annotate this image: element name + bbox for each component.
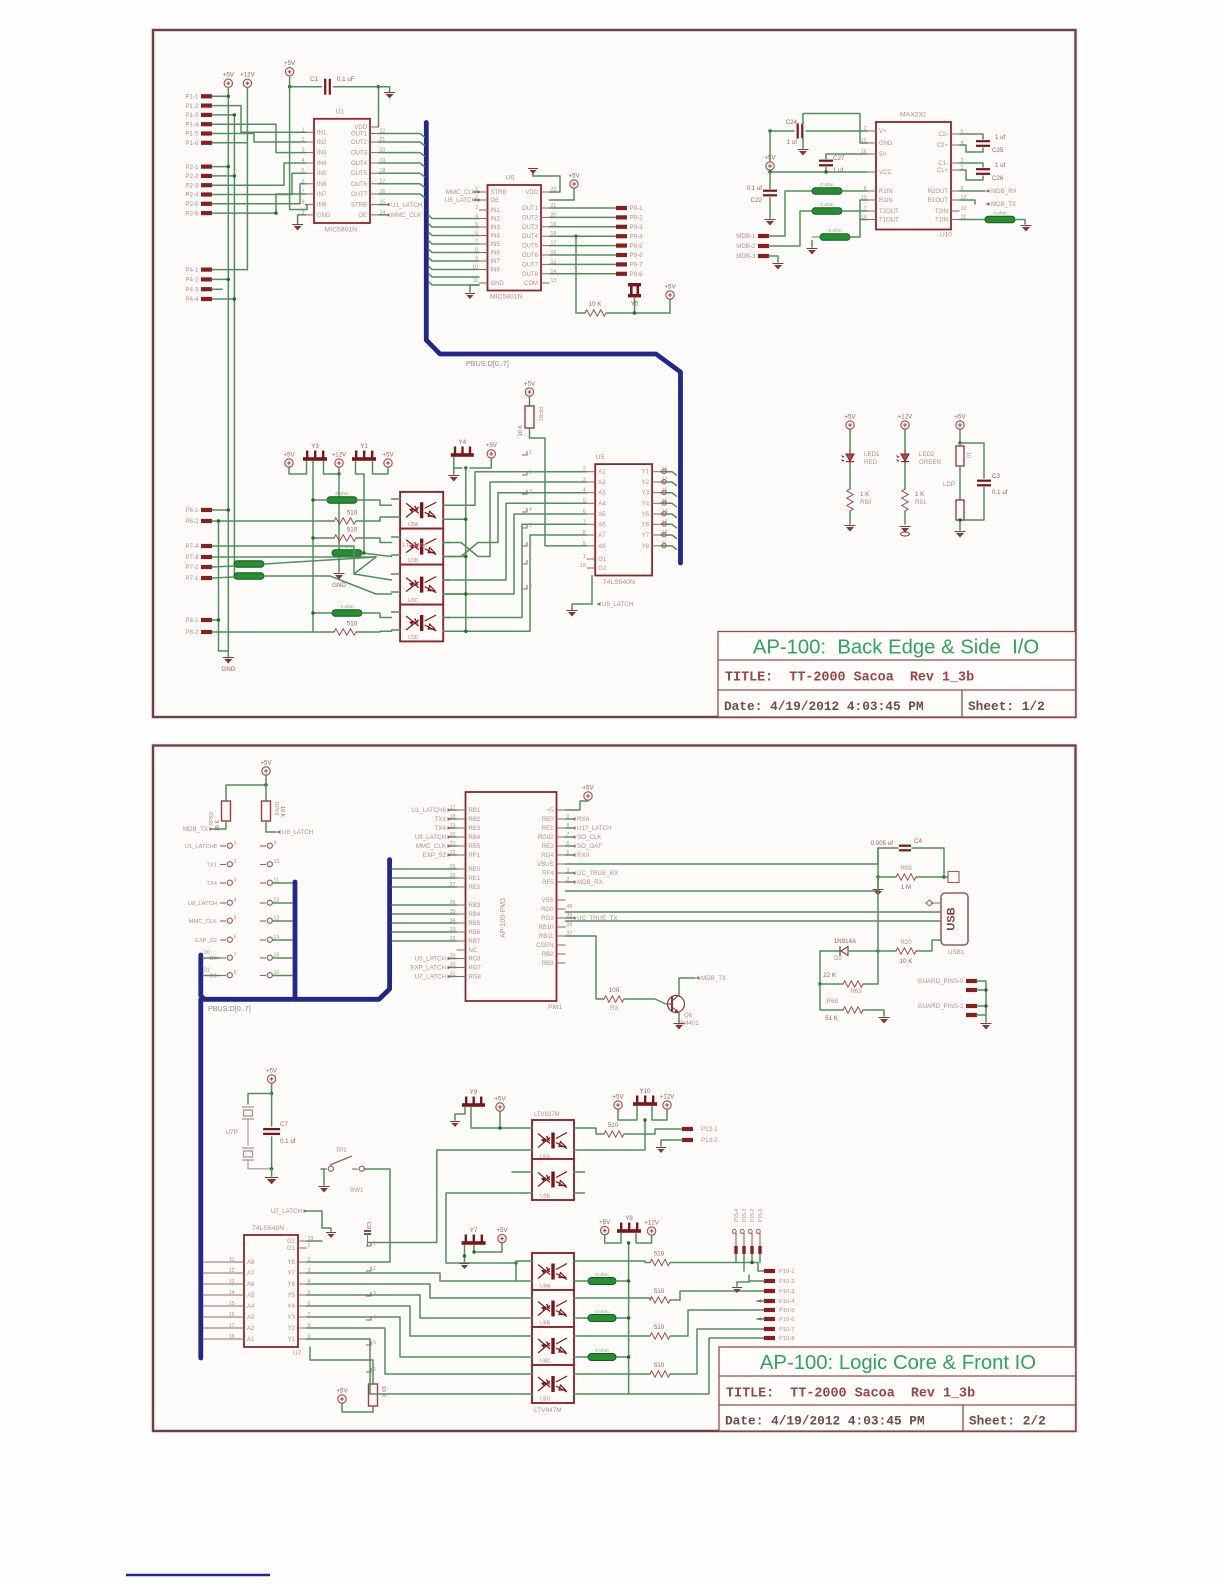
svg-text:C26: C26 <box>992 175 1004 182</box>
pin P10-3 <box>764 1289 775 1293</box>
power +5V <box>262 767 270 775</box>
svg-text:RX0: RX0 <box>577 852 590 859</box>
wire EXP_S2 <box>449 854 457 856</box>
power +5V <box>338 1395 346 1403</box>
svg-text:OUT6: OUT6 <box>351 182 368 188</box>
svg-text:IN2: IN2 <box>491 217 501 223</box>
net stub <box>366 1267 371 1271</box>
svg-text:+5V: +5V <box>486 442 498 449</box>
resistor 0 ohm <box>812 188 842 195</box>
wire <box>842 210 868 212</box>
svg-text:Y1: Y1 <box>360 443 368 450</box>
resistor 0 ohm <box>234 561 264 568</box>
svg-text:P9-3: P9-3 <box>630 224 644 231</box>
svg-text:0 ohm: 0 ohm <box>595 1272 608 1278</box>
title block sheet 1 <box>718 632 1076 718</box>
pin P2-3 <box>201 183 212 187</box>
wire bus to PM1 <box>392 931 457 933</box>
wire <box>212 134 306 143</box>
wire +12V rail to gnd <box>338 474 340 572</box>
svg-text:Y8: Y8 <box>288 1260 296 1266</box>
svg-text:RG0: RG0 <box>541 907 554 913</box>
svg-text:10: 10 <box>274 859 280 865</box>
svg-text:RF4: RF4 <box>542 871 554 877</box>
svg-text:OUT2: OUT2 <box>522 215 539 221</box>
node <box>627 1279 630 1282</box>
node <box>876 875 879 878</box>
wire <box>912 848 944 877</box>
svg-text:RPK8: RPK8 <box>209 812 215 826</box>
svg-text:0.1 uf: 0.1 uf <box>280 1138 296 1145</box>
optocoupler section U8D <box>532 1365 574 1403</box>
power +5V <box>601 1226 609 1234</box>
svg-text:U6: U6 <box>506 175 515 182</box>
svg-text:Sheet: 1/2: Sheet: 1/2 <box>968 699 1045 714</box>
svg-text:RE0: RE0 <box>542 817 554 823</box>
wire <box>550 189 575 201</box>
svg-text:510: 510 <box>654 1251 665 1258</box>
svg-text:OUT5: OUT5 <box>351 171 368 177</box>
svg-text:LTV847M: LTV847M <box>403 543 427 549</box>
svg-text:C27: C27 <box>833 155 845 162</box>
svg-text:T2OUT: T2OUT <box>879 209 899 215</box>
wire bus to U6 <box>429 282 480 286</box>
svg-text:IN1: IN1 <box>491 208 501 214</box>
svg-text:+5V: +5V <box>260 759 272 766</box>
wire <box>212 166 228 168</box>
crystal U7P lower <box>242 1148 254 1160</box>
node <box>362 551 365 554</box>
wire <box>670 1310 764 1336</box>
svg-text:P15-1: P15-1 <box>758 1208 764 1222</box>
svg-text:C8: C8 <box>365 1222 371 1229</box>
ground <box>846 527 854 532</box>
wire <box>960 170 984 180</box>
svg-text:U7_LATCH: U7_LATCH <box>415 974 446 981</box>
wire <box>356 630 392 633</box>
wire <box>825 154 827 159</box>
resistor 0 ohm <box>327 497 357 504</box>
wire <box>977 981 986 1015</box>
wire <box>959 430 961 444</box>
svg-text:Y5: Y5 <box>288 1293 296 1299</box>
pin P1-5 <box>201 131 212 135</box>
pin header P11-5 <box>227 918 232 923</box>
svg-text:P10-4: P10-4 <box>779 1299 795 1305</box>
wire <box>356 538 392 543</box>
power +12V <box>243 79 251 87</box>
wire to bus <box>273 920 293 922</box>
resistor 0 ohm <box>588 1278 616 1285</box>
wire <box>313 612 332 614</box>
resistor 510 <box>650 1333 670 1339</box>
wire <box>443 504 449 506</box>
svg-text:+5V: +5V <box>266 1067 278 1074</box>
svg-text:D1: D1 <box>203 968 210 974</box>
svg-text:A2: A2 <box>598 480 606 486</box>
pin header P12-4 <box>267 900 272 905</box>
wire <box>212 175 234 177</box>
wire opto stub <box>522 1149 533 1151</box>
wire U8_LATCH <box>449 836 457 838</box>
wire P7 rows <box>212 546 392 580</box>
wire +5V rail <box>227 88 229 656</box>
ground <box>799 151 807 156</box>
svg-text:10 K: 10 K <box>900 958 914 965</box>
sheet 2 frame <box>153 746 1076 1432</box>
ground <box>532 171 534 176</box>
svg-text:GND: GND <box>221 666 235 673</box>
optocoupler section U3B <box>400 529 443 565</box>
pin P8-2 <box>201 630 212 634</box>
net stub <box>366 1368 371 1372</box>
wire row <box>585 1373 651 1375</box>
ground <box>1022 227 1030 232</box>
connector USB1 <box>941 893 968 945</box>
wire U1_LATCH stub <box>379 204 387 206</box>
svg-text:+5V: +5V <box>844 413 856 420</box>
wire EXP_LATCH <box>449 967 457 969</box>
svg-text:Y4: Y4 <box>459 439 467 446</box>
wire Y4 rail joints <box>450 518 466 520</box>
wire <box>212 194 306 213</box>
svg-text:COM: COM <box>524 281 538 287</box>
svg-text:P4-3: P4-3 <box>185 286 199 293</box>
wire opto stub <box>522 1356 533 1358</box>
wire <box>499 1112 501 1129</box>
svg-text:Date: 4/19/2012 4:03:45 PM: Date: 4/19/2012 4:03:45 PM <box>724 699 924 714</box>
svg-text:+12V: +12V <box>332 451 347 458</box>
wire <box>474 1243 502 1252</box>
wire <box>959 520 961 530</box>
wire <box>960 134 984 139</box>
pin header P12-7 <box>267 955 272 960</box>
svg-text:SO_OAT: SO_OAT <box>577 843 602 850</box>
pin header P11-4 <box>227 900 232 905</box>
svg-text:0.005 uf: 0.005 uf <box>871 840 894 847</box>
svg-text:7: 7 <box>529 559 532 565</box>
wire <box>863 1010 884 1016</box>
wire <box>585 1280 589 1282</box>
optocoupler section U3C <box>400 565 443 605</box>
svg-text:PM1: PM1 <box>548 1004 562 1011</box>
wire opto stub <box>522 1335 533 1337</box>
wire <box>307 1284 522 1298</box>
bus PBUS sheet2 left leg <box>198 999 203 1358</box>
pin P10-1 <box>764 1269 775 1273</box>
wire <box>307 1246 391 1262</box>
svg-text:RB3: RB3 <box>469 826 481 832</box>
pin P4-1 <box>201 268 212 272</box>
svg-text:P15-4: P15-4 <box>734 1208 740 1222</box>
pin P2-5 <box>201 202 212 206</box>
svg-text:510: 510 <box>654 1288 665 1295</box>
resistor R20 10 K <box>878 950 896 952</box>
pin GUARD_PINS-0 <box>966 979 977 983</box>
svg-text:P8-2: P8-2 <box>185 629 199 636</box>
op-amp U1 MIC5801N <box>314 119 370 223</box>
svg-text:R68: R68 <box>827 998 839 1005</box>
capacitor C1 0.1 uF <box>325 79 330 95</box>
wire Y3 rail <box>312 461 314 632</box>
svg-text:P2-6: P2-6 <box>185 210 199 217</box>
svg-text:EXP_S2: EXP_S2 <box>195 938 217 944</box>
svg-text:A4: A4 <box>598 501 606 507</box>
wire opto stub <box>522 1127 533 1129</box>
wire <box>605 1233 621 1243</box>
pin header P12-1 <box>267 843 272 848</box>
sheet 1 frame <box>153 30 1076 717</box>
svg-text:P8-1: P8-1 <box>185 617 199 624</box>
svg-text:P1-1: P1-1 <box>185 94 199 101</box>
wire <box>960 163 984 167</box>
pin P7-1 <box>201 576 212 580</box>
svg-text:RB4: RB4 <box>469 835 481 841</box>
svg-text:P7-3: P7-3 <box>185 554 199 561</box>
svg-text:0.1 uf: 0.1 uf <box>747 185 763 192</box>
wire <box>212 173 306 194</box>
svg-text:Y9: Y9 <box>470 1089 478 1096</box>
svg-text:C3: C3 <box>992 473 1000 480</box>
svg-text:U10: U10 <box>940 232 952 239</box>
pin P10-6 <box>764 1317 775 1321</box>
wire MDB_TX <box>960 200 976 204</box>
USB shield stub <box>948 872 959 883</box>
svg-text:RF1: RF1 <box>469 853 481 859</box>
svg-text:R09: R09 <box>900 865 912 872</box>
svg-text:OUT6: OUT6 <box>522 253 539 259</box>
power +5V <box>224 79 232 87</box>
op-amp U6 MIC5801N <box>488 185 542 291</box>
pin P13-1 <box>682 1127 693 1131</box>
svg-text:P13-2: P13-2 <box>701 1137 718 1144</box>
svg-text:IN6: IN6 <box>491 251 501 257</box>
svg-text:Date: 4/19/2012 4:03:45 PM: Date: 4/19/2012 4:03:45 PM <box>725 1414 925 1429</box>
wire <box>212 163 306 185</box>
svg-text:+5V: +5V <box>954 413 966 420</box>
optocoupler section U8B <box>532 1290 574 1327</box>
wire <box>529 428 531 438</box>
wire D1 <box>203 975 220 977</box>
node <box>337 472 340 475</box>
node <box>818 982 821 985</box>
wire <box>769 172 771 189</box>
wire U1 out to bus <box>379 184 425 188</box>
node <box>958 441 961 444</box>
ground GND <box>335 575 343 580</box>
net stub <box>522 471 527 475</box>
svg-text:R63: R63 <box>850 988 862 995</box>
svg-text:74LS540N: 74LS540N <box>603 579 635 586</box>
wire <box>364 1169 390 1246</box>
ground <box>298 215 306 224</box>
pin P4-2 <box>201 277 212 281</box>
wire opto stub <box>522 1192 533 1194</box>
svg-text:1: 1 <box>583 554 586 560</box>
svg-text:TP1: TP1 <box>335 1147 347 1154</box>
svg-text:+5V: +5V <box>599 1219 611 1226</box>
ground <box>321 1168 324 1170</box>
wire bus to U7 <box>203 1283 236 1285</box>
svg-text:P10-3: P10-3 <box>779 1289 794 1295</box>
power +5V <box>384 459 392 467</box>
wire opto stub <box>522 1260 533 1262</box>
wire <box>307 1328 522 1374</box>
wire <box>515 1263 517 1281</box>
pin P2-1 <box>201 165 212 169</box>
net stub <box>366 1316 371 1320</box>
svg-text:U5_LATCH: U5_LATCH <box>445 197 476 204</box>
pin GUARD_PINS-2 <box>966 1004 977 1008</box>
power +5V <box>285 459 293 467</box>
svg-text:P10-8: P10-8 <box>779 1336 794 1342</box>
svg-text:OUT1: OUT1 <box>522 206 539 212</box>
pin P2-2 <box>201 174 212 178</box>
net stub <box>522 490 527 494</box>
svg-text:+12V: +12V <box>644 1219 659 1226</box>
ground <box>227 655 229 658</box>
svg-text:Y6: Y6 <box>642 522 650 528</box>
wire MDB_RX <box>566 881 573 883</box>
svg-text:1N914A: 1N914A <box>834 938 857 945</box>
wire <box>446 1193 522 1263</box>
ground <box>322 1228 331 1231</box>
svg-text:Y6: Y6 <box>288 1282 296 1288</box>
wire <box>769 198 771 219</box>
svg-text:RG8: RG8 <box>469 975 482 981</box>
wire <box>624 1129 682 1134</box>
svg-text:STRB: STRB <box>351 203 367 209</box>
svg-text:A7: A7 <box>247 1271 255 1277</box>
svg-text:Sheet: 2/2: Sheet: 2/2 <box>969 1414 1046 1429</box>
wire <box>735 1254 737 1263</box>
svg-text:6: 6 <box>529 541 532 547</box>
svg-text:10 K: 10 K <box>518 425 524 437</box>
node <box>876 889 879 892</box>
wire <box>362 553 392 557</box>
svg-text:RB5: RB5 <box>469 844 481 850</box>
wire U7_LATCH <box>449 976 457 978</box>
wire GND loop <box>803 114 868 144</box>
header Y1 <box>352 451 376 461</box>
svg-text:0 ohm: 0 ohm <box>820 182 833 188</box>
svg-text:38: 38 <box>567 922 573 928</box>
pin header P11-3 <box>227 880 232 885</box>
svg-text:Y1: Y1 <box>642 470 650 476</box>
wire bus to U6 <box>429 266 480 270</box>
svg-text:1: 1 <box>234 841 237 847</box>
svg-text:P1-4: P1-4 <box>185 121 199 128</box>
wire <box>550 216 617 218</box>
svg-text:R2IN: R2IN <box>879 189 893 195</box>
svg-text:TX4: TX4 <box>206 881 217 887</box>
wire U5 out to bus <box>661 503 677 507</box>
wire <box>550 245 617 247</box>
svg-text:MDB_RX: MDB_RX <box>577 879 603 886</box>
wire bus to PM1 <box>392 913 457 915</box>
wire <box>450 503 587 580</box>
resistor 0 ohm <box>332 610 362 617</box>
wire MDB_TX <box>213 821 226 829</box>
wire <box>212 509 228 511</box>
power +5V <box>956 421 964 429</box>
wire +12V rail <box>246 88 248 270</box>
wire U5 out to bus <box>661 482 677 486</box>
svg-text:U8_LATCH: U8_LATCH <box>415 834 446 841</box>
svg-text:RB7: RB7 <box>469 939 481 945</box>
wire bus to PM1 <box>392 922 457 924</box>
wire <box>960 488 984 521</box>
svg-text:IN3: IN3 <box>317 151 327 157</box>
net stub <box>366 1292 371 1296</box>
svg-text:U1: U1 <box>336 109 345 116</box>
resistor 0 ohm <box>234 573 264 580</box>
capacitor C24 1 uf <box>798 124 803 139</box>
ground <box>877 877 879 888</box>
wire MMC_CLK stub <box>379 214 387 216</box>
wire bus to U7 <box>203 1338 236 1340</box>
wire MMC_CLK label <box>478 190 482 194</box>
pin MDB-1 <box>758 234 769 238</box>
svg-text:100: 100 <box>609 987 620 994</box>
node <box>217 519 220 522</box>
power +12V <box>335 459 343 467</box>
wire to bus <box>273 882 293 884</box>
svg-text:P9-1: P9-1 <box>630 205 644 212</box>
svg-text:C2+: C2+ <box>937 143 949 149</box>
svg-text:C7: C7 <box>280 1121 288 1128</box>
diode D2 1N914A <box>820 950 840 952</box>
wire <box>247 1119 249 1145</box>
svg-text:T1OUT: T1OUT <box>879 218 899 224</box>
svg-text:P10-1: P10-1 <box>779 1269 794 1275</box>
wire USB D+ <box>566 911 942 913</box>
svg-text:AP-100: Logic Core & Front IO: AP-100: Logic Core & Front IO <box>760 1352 1036 1374</box>
svg-text:G2: G2 <box>287 1239 296 1245</box>
svg-text:D2: D2 <box>834 955 842 962</box>
wire to bus <box>273 902 293 904</box>
optocoupler section U3D <box>400 605 443 642</box>
wire <box>877 877 879 951</box>
wire <box>624 999 666 1004</box>
pin P7-3 <box>201 555 212 559</box>
wire long row1 <box>566 848 879 864</box>
svg-text:Y3: Y3 <box>311 443 319 450</box>
svg-text:OUT7: OUT7 <box>351 192 368 198</box>
svg-text:USB1: USB1 <box>948 949 965 956</box>
wire bus to PM1 <box>392 886 457 888</box>
wire bus to U7 <box>203 1261 236 1263</box>
svg-text:RG7: RG7 <box>469 966 482 972</box>
svg-text:5: 5 <box>234 916 237 922</box>
svg-text:OUT1: OUT1 <box>351 132 368 138</box>
wire <box>661 1140 682 1146</box>
pin P7-2 <box>201 565 212 569</box>
pin P7-4 <box>201 544 212 548</box>
svg-text:MIC5801N: MIC5801N <box>490 294 523 301</box>
wire rail <box>233 115 235 578</box>
wire U5_LATCH label <box>478 198 482 202</box>
svg-text:0.1 uF: 0.1 uF <box>337 76 355 83</box>
wire stub <box>512 1171 522 1173</box>
pin P10-5 <box>764 1308 775 1312</box>
svg-text:3: 3 <box>529 489 532 495</box>
node <box>233 113 236 116</box>
node <box>217 618 220 621</box>
header Y3 <box>303 451 327 461</box>
svg-text:+5V: +5V <box>283 451 295 458</box>
svg-text:510: 510 <box>608 1122 619 1129</box>
